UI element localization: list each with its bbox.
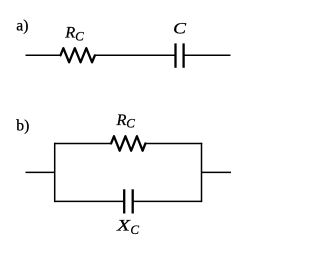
svg-text:R: R	[64, 23, 75, 42]
wire b) left stub	[26, 171, 55, 173]
svg-text:C: C	[173, 18, 187, 37]
resistor R1 zigzag	[61, 48, 95, 62]
svg-text:a): a)	[16, 18, 28, 35]
wire a) right segment	[184, 54, 231, 56]
wire b) bottom side right segment	[133, 200, 203, 202]
svg-text:X: X	[116, 216, 132, 235]
capacitor C1 right plate	[182, 43, 184, 67]
capacitor C2 left plate	[123, 189, 125, 213]
wire b) left vertical side	[54, 143, 56, 202]
svg-text:R: R	[116, 110, 127, 129]
resistor R2 zigzag	[111, 136, 145, 150]
capacitor C1 left plate	[174, 43, 176, 67]
wire a) middle segment	[95, 54, 176, 56]
svg-text:C: C	[130, 222, 139, 237]
capacitor C2 right plate	[132, 189, 134, 213]
wire b) right stub	[202, 171, 232, 173]
svg-text:C: C	[126, 116, 135, 131]
wire a) left segment	[26, 54, 61, 56]
wire b) right vertical side	[201, 143, 203, 202]
wire b) top side left segment	[54, 143, 111, 145]
wire b) top side right segment	[145, 143, 202, 145]
svg-text:C: C	[75, 28, 84, 43]
wire b) bottom side left segment	[54, 200, 124, 202]
svg-text:b): b)	[16, 117, 29, 134]
